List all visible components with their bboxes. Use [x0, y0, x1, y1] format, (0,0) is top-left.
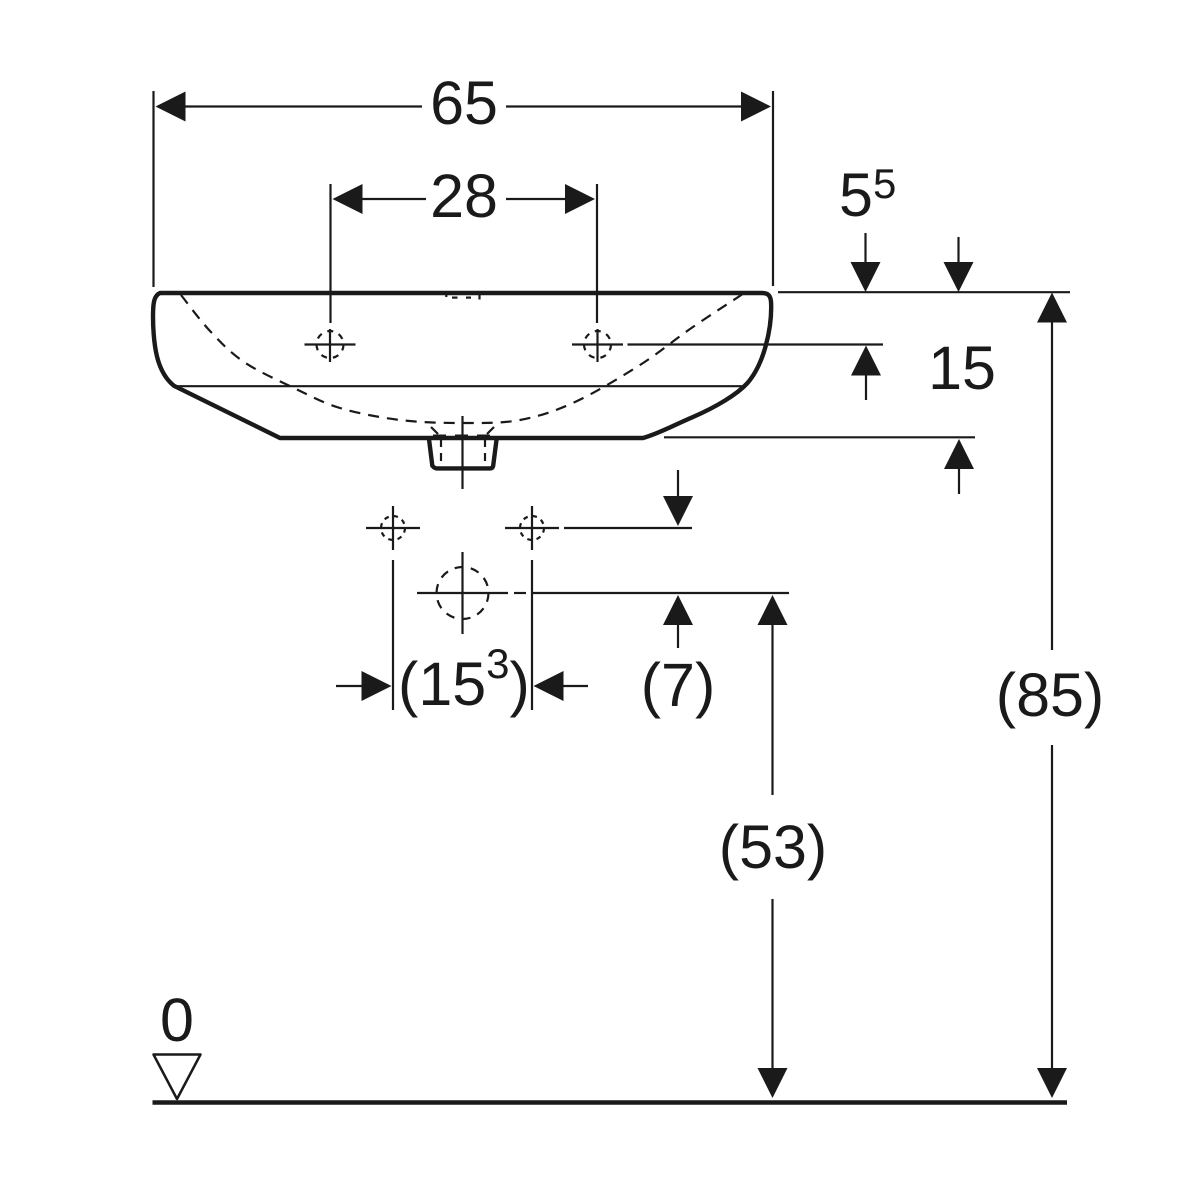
bowl funnel to drain — [431, 427, 494, 434]
svg-text:0: 0 — [160, 986, 194, 1054]
datum zero — [154, 986, 201, 1099]
faucet level line — [628, 343, 884, 345]
svg-text:(53): (53) — [719, 813, 827, 881]
faucet hole left — [305, 329, 356, 362]
siphon level line — [514, 592, 789, 594]
basin bowl dashed curve — [181, 295, 742, 424]
drain centerline — [461, 416, 463, 489]
dimension 7 — [641, 470, 716, 719]
dimension 15.3 — [336, 640, 588, 718]
dimension 15 — [928, 237, 996, 494]
top level line — [778, 291, 1070, 293]
dimension 28 — [331, 162, 598, 323]
faucet hole right — [572, 329, 623, 362]
svg-text:(85): (85) — [996, 661, 1104, 729]
wall hole extension left — [392, 560, 394, 710]
svg-text:(153): (153) — [398, 640, 530, 718]
dimension 85 — [996, 293, 1104, 1099]
wall hole left — [366, 506, 420, 550]
overflow dashed marker — [446, 294, 479, 300]
wall hole level line — [564, 527, 692, 529]
svg-text:65: 65 — [430, 69, 498, 137]
basin rim line — [174, 385, 743, 387]
bottom level line — [664, 436, 975, 438]
drain tenon — [429, 437, 497, 469]
svg-text:28: 28 — [430, 162, 498, 230]
dimension 65 — [154, 69, 774, 287]
wall hole extension right — [531, 560, 533, 710]
dimension 53 — [719, 595, 827, 1098]
dimension 5.5 — [839, 160, 896, 400]
siphon hole — [417, 552, 508, 634]
basin outline — [153, 293, 771, 438]
wall hole right — [505, 506, 559, 550]
svg-text:15: 15 — [928, 334, 996, 402]
svg-text:(7): (7) — [641, 651, 716, 719]
baseline — [153, 1100, 1068, 1105]
